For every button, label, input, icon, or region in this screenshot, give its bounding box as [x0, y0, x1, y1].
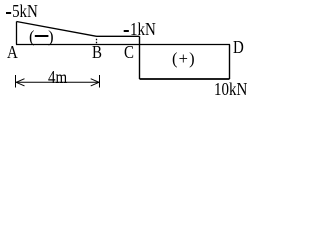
dimension line 4m — [16, 81, 99, 83]
dimension text 4m — [48, 69, 67, 87]
shear value label -1kN — [122, 21, 156, 39]
positive region label (+) — [172, 50, 196, 67]
ordinate at C (step to +10kN) — [139, 36, 141, 79]
dotted ordinate at B — [96, 39, 98, 44]
zero axis baseline A to D — [16, 44, 230, 46]
right arrowhead barbs — [91, 79, 99, 86]
negative region label (-) — [29, 28, 54, 45]
bottom edge of positive area C to D — [140, 78, 230, 80]
dimension tick at B — [99, 75, 101, 88]
point label B — [92, 44, 102, 62]
shear value label 10kN — [214, 81, 247, 99]
point label C — [124, 44, 134, 62]
shear value label -5kN — [6, 3, 38, 21]
ordinate at D — [229, 45, 231, 80]
dimension tick at A — [15, 75, 17, 88]
sloping shear line A to B — [17, 22, 97, 37]
shear line B to C at -1kN — [97, 35, 140, 37]
support point label A — [7, 44, 18, 62]
left arrowhead barbs — [16, 79, 24, 86]
ordinate at A (-5kN) — [16, 22, 18, 45]
point label D — [233, 39, 244, 57]
